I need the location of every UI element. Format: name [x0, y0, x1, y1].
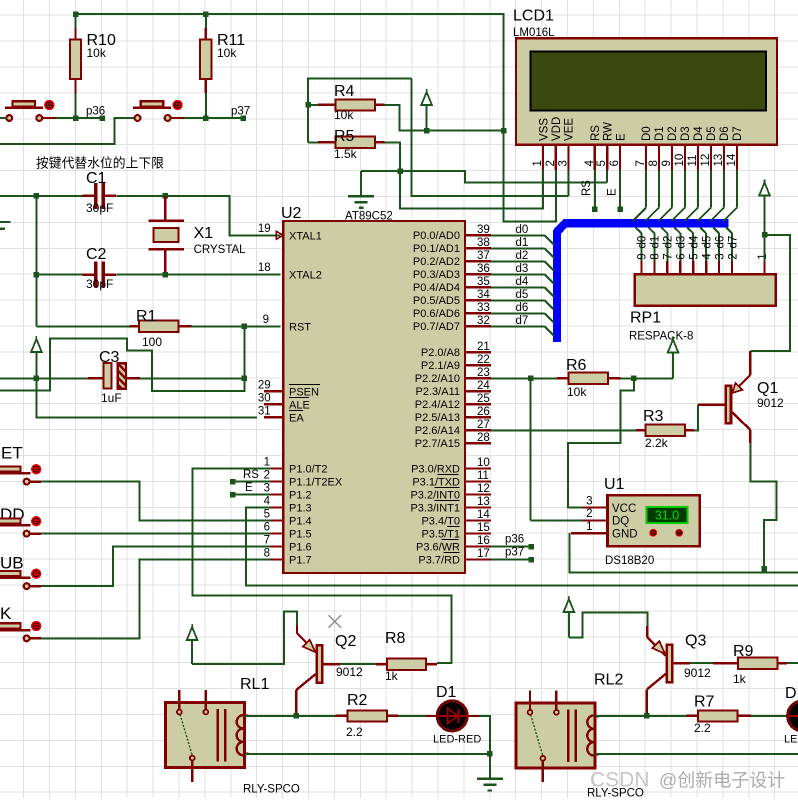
- svg-text:30pF: 30pF: [86, 201, 113, 215]
- svg-text:P1.1/T2EX: P1.1/T2EX: [289, 476, 343, 488]
- svg-text:30pF: 30pF: [86, 277, 113, 291]
- svg-text:C3: C3: [99, 349, 120, 366]
- svg-text:D7: D7: [732, 126, 744, 141]
- svg-text:LCD1: LCD1: [513, 8, 554, 25]
- svg-text:RP1: RP1: [630, 310, 661, 327]
- svg-text:d3: d3: [676, 236, 688, 249]
- svg-text:R5: R5: [334, 128, 355, 145]
- svg-text:R4: R4: [334, 83, 355, 100]
- push button: [30, 637, 41, 639]
- wire X1 row to XTAL1: [165, 196, 280, 236]
- wire RL1 coil bottom: [245, 753, 490, 755]
- svg-text:38: 38: [477, 237, 490, 249]
- LCD pins: [542, 145, 544, 171]
- svg-text:Q2: Q2: [335, 633, 356, 650]
- svg-text:D2: D2: [667, 126, 679, 141]
- net label RS at LCD: [592, 206, 598, 212]
- wire C1 to X1 top: [117, 195, 165, 197]
- svg-text:34: 34: [477, 289, 490, 301]
- node R4 left: [305, 102, 311, 108]
- wire RS pin to label: [594, 170, 596, 209]
- resistor R2: [336, 715, 348, 717]
- svg-text:3: 3: [586, 495, 592, 507]
- svg-text:RW: RW: [603, 122, 615, 141]
- node RP1 power: [762, 232, 768, 238]
- svg-text:VSS: VSS: [538, 118, 550, 141]
- svg-text:4: 4: [264, 496, 271, 508]
- power +5V arrow A2: [35, 336, 37, 339]
- relay RL2 RLY-SPCO: [516, 703, 595, 768]
- svg-text:P3.0/RXD: P3.0/RXD: [411, 463, 460, 475]
- wire R1 to RST: [192, 325, 281, 327]
- wire Q1 collector down: [750, 443, 776, 573]
- transistor Q3 9012: [667, 645, 672, 683]
- wire Q3 base to R9: [690, 662, 713, 664]
- node D1-gnd: [487, 751, 493, 757]
- svg-text:P1.3: P1.3: [289, 502, 312, 514]
- push button: [30, 585, 41, 587]
- svg-text:R9: R9: [733, 643, 754, 660]
- svg-text:36: 36: [477, 263, 490, 275]
- wire P2.6 to R3: [491, 429, 636, 431]
- svg-text:P1.4: P1.4: [289, 515, 312, 527]
- svg-text:VDD: VDD: [551, 117, 563, 141]
- net label E at LCD: [617, 206, 623, 212]
- wire arrow to Q3 emitter: [569, 613, 648, 638]
- svg-text:11: 11: [477, 470, 489, 482]
- wire P1.5 from DD: [41, 533, 270, 535]
- svg-text:24: 24: [477, 380, 490, 392]
- svg-text:32: 32: [477, 315, 490, 327]
- svg-text:9: 9: [263, 314, 269, 326]
- svg-text:P0.1/AD1: P0.1/AD1: [413, 243, 460, 255]
- svg-text:p37: p37: [505, 547, 524, 559]
- svg-text:DQ: DQ: [612, 516, 629, 528]
- wire left bus down: [35, 196, 37, 275]
- wire R2 to D1: [398, 715, 426, 717]
- node rail-R11: [203, 11, 209, 17]
- svg-text:P3.5/T1: P3.5/T1: [421, 528, 460, 540]
- svg-text:10k: 10k: [334, 108, 354, 122]
- svg-text:XTAL2: XTAL2: [289, 270, 322, 282]
- net label p36: [99, 115, 105, 121]
- wire +5V top rail: [76, 14, 504, 131]
- svg-text:RST: RST: [289, 321, 311, 333]
- node C2-left: [34, 272, 40, 278]
- U2 P1 pin stubs: [270, 468, 283, 470]
- svg-text:P2.7/A15: P2.7/A15: [415, 438, 460, 450]
- resistor R4: [308, 104, 318, 106]
- svg-text:RLY-SPCO: RLY-SPCO: [243, 784, 300, 796]
- svg-text:1: 1: [532, 160, 544, 166]
- svg-text:8: 8: [264, 548, 270, 560]
- node Q2 collector: [293, 713, 299, 719]
- wire C1 row left: [0, 195, 36, 197]
- wire RW pin: [606, 170, 608, 182]
- svg-text:XTAL1: XTAL1: [289, 230, 322, 242]
- wire reset loop staircase: [0, 339, 244, 391]
- wire DQ drop: [530, 378, 532, 520]
- svg-text:3: 3: [557, 160, 569, 166]
- resistor R5: [308, 141, 318, 143]
- svg-text:RS: RS: [581, 180, 593, 196]
- svg-text:R1: R1: [136, 308, 157, 325]
- svg-text:CSDN: CSDN: [590, 769, 650, 792]
- svg-text:7: 7: [264, 535, 270, 547]
- svg-text:1: 1: [264, 457, 270, 469]
- svg-text:27: 27: [477, 419, 490, 431]
- svg-text:P2.1/A9: P2.1/A9: [421, 360, 460, 372]
- svg-text:4: 4: [584, 160, 596, 167]
- push button: [30, 480, 41, 482]
- svg-text:D5: D5: [706, 126, 718, 141]
- power +5V arrow A3: [191, 624, 193, 627]
- svg-text:P2.0/A8: P2.0/A8: [421, 347, 460, 359]
- svg-text:1: 1: [586, 521, 592, 533]
- svg-text:22: 22: [477, 354, 490, 366]
- node button2-R11: [203, 115, 209, 121]
- wire R6 right to arrow: [621, 377, 673, 379]
- svg-text:2: 2: [586, 508, 592, 520]
- svg-text:R2: R2: [347, 692, 368, 709]
- wire D1 to ground: [467, 715, 479, 717]
- power +5V arrow A5: [672, 337, 674, 340]
- svg-text:9012: 9012: [757, 396, 784, 410]
- svg-text:31: 31: [258, 405, 271, 417]
- bus data d0-d7: [557, 223, 728, 342]
- svg-text:2: 2: [727, 253, 739, 259]
- svg-text:VEE: VEE: [564, 118, 576, 141]
- svg-text:P1.0/T2: P1.0/T2: [289, 463, 328, 475]
- svg-text:p37: p37: [231, 106, 250, 118]
- svg-text:d7: d7: [516, 315, 529, 327]
- svg-text:7: 7: [635, 160, 647, 166]
- svg-text:1uF: 1uF: [101, 391, 122, 405]
- svg-text:28: 28: [477, 432, 490, 444]
- resistor R3: [636, 429, 646, 431]
- wire arrow to Q2 emitter: [192, 611, 297, 664]
- wire R3 to Q1 base: [694, 405, 698, 431]
- svg-text:9: 9: [661, 160, 673, 166]
- svg-text:D: D: [785, 685, 797, 702]
- ground G0 partial: [0, 221, 11, 223]
- svg-text:R6: R6: [566, 357, 587, 374]
- svg-text:12: 12: [477, 483, 490, 495]
- svg-text:6: 6: [609, 160, 621, 166]
- wire P1.6 from UB: [41, 547, 270, 587]
- svg-text:10: 10: [674, 154, 686, 167]
- svg-text:D3: D3: [680, 126, 692, 141]
- svg-text:8: 8: [650, 253, 662, 259]
- svg-text:13: 13: [477, 496, 490, 508]
- svg-text:8: 8: [648, 160, 660, 166]
- svg-text:D6: D6: [719, 126, 731, 141]
- svg-text:35: 35: [477, 276, 490, 288]
- svg-text:P3.4/T0: P3.4/T0: [421, 515, 460, 527]
- svg-text:2.2: 2.2: [694, 721, 711, 735]
- svg-text:PSEN: PSEN: [289, 386, 319, 398]
- svg-text:LED-RED: LED-RED: [433, 734, 481, 746]
- resistor R7: [687, 715, 698, 717]
- svg-text:3: 3: [714, 253, 726, 259]
- svg-text:d1: d1: [650, 236, 662, 249]
- svg-text:按键代替水位的上下限: 按键代替水位的上下限: [36, 156, 164, 171]
- power +5V arrow A1: [426, 89, 428, 92]
- LCD screen: [531, 51, 766, 110]
- diode D2 LED-RED: [788, 701, 798, 731]
- svg-text:RS: RS: [590, 125, 602, 141]
- resistor R6: [557, 377, 569, 379]
- svg-text:P0.4/AD4: P0.4/AD4: [413, 282, 460, 294]
- svg-text:21: 21: [477, 341, 490, 353]
- svg-text:d6: d6: [714, 236, 726, 249]
- svg-text:6: 6: [676, 253, 688, 259]
- svg-text:P0.7/AD7: P0.7/AD7: [413, 321, 460, 333]
- node C3-right: [242, 376, 248, 382]
- svg-text:33: 33: [477, 302, 490, 314]
- svg-text:100: 100: [142, 335, 162, 349]
- capacitor C2: [36, 274, 88, 276]
- svg-text:@创新电子设计: @创新电子设计: [659, 771, 785, 791]
- resistor R1: [36, 325, 129, 327]
- svg-text:7: 7: [663, 253, 675, 259]
- svg-text:13: 13: [713, 154, 725, 167]
- resistor R10: [75, 14, 77, 28]
- svg-text:6: 6: [264, 522, 270, 534]
- wire P3.7 p37: [491, 559, 531, 561]
- resistor R11: [205, 14, 207, 28]
- svg-text:P3.3/INT1: P3.3/INT1: [410, 502, 460, 514]
- svg-text:UB: UB: [0, 554, 24, 573]
- svg-text:K: K: [0, 604, 12, 623]
- svg-text:X1: X1: [194, 225, 214, 242]
- wire P1.7 from K: [41, 560, 270, 639]
- wire RL1 coil top to R2: [245, 715, 336, 717]
- node C1-left: [34, 193, 40, 199]
- ground G1: [360, 171, 362, 196]
- wire VEE pin: [567, 170, 569, 196]
- svg-text:19: 19: [258, 223, 271, 235]
- svg-text:10k: 10k: [87, 46, 107, 60]
- wire E pin to label: [619, 170, 621, 209]
- wire R7 to D2: [751, 715, 788, 717]
- wire button1 left exit: [0, 117, 4, 119]
- svg-text:15: 15: [477, 522, 490, 534]
- svg-text:2.2k: 2.2k: [645, 436, 669, 450]
- svg-text:d3: d3: [516, 263, 529, 275]
- svg-text:E: E: [607, 188, 619, 196]
- svg-text:31.0: 31.0: [655, 509, 679, 523]
- wire R4R5 left loop: [308, 79, 412, 143]
- wire P1.3 long rail: [246, 508, 798, 586]
- U2 left pin stubs: [264, 390, 284, 392]
- svg-text:P1.2: P1.2: [289, 489, 312, 501]
- svg-text:30: 30: [258, 392, 271, 404]
- svg-text:1k: 1k: [733, 672, 747, 686]
- svg-text:14: 14: [726, 153, 738, 166]
- net label p36 chip: [528, 544, 534, 550]
- node R6-right: [631, 376, 637, 382]
- svg-text:E: E: [615, 133, 627, 141]
- wire RP1 pin1 power: [764, 235, 766, 261]
- wire R6 node to U1 VCC: [568, 378, 634, 507]
- svg-text:2: 2: [545, 160, 557, 166]
- net label p37: [240, 115, 246, 121]
- error marker X: [328, 615, 341, 628]
- svg-text:3: 3: [264, 483, 270, 495]
- wire C2 to XTAL2: [117, 274, 165, 276]
- net label E tap: [230, 492, 236, 498]
- svg-text:d5: d5: [701, 236, 713, 249]
- transistor Q1 9012: [726, 386, 731, 424]
- svg-text:ET: ET: [1, 444, 23, 463]
- svg-text:d0: d0: [516, 224, 529, 236]
- svg-text:RESPACK-8: RESPACK-8: [629, 331, 693, 343]
- svg-text:D1: D1: [654, 126, 666, 141]
- svg-text:P2.6/A14: P2.6/A14: [415, 425, 460, 437]
- wire VDD drop: [504, 131, 557, 222]
- node Q3 collector: [644, 713, 650, 719]
- svg-text:23: 23: [477, 367, 490, 379]
- U2 P3 pin stubs: [465, 468, 491, 470]
- svg-text:P2.3/A11: P2.3/A11: [416, 386, 460, 398]
- wire gnd down to VSS row: [400, 170, 543, 208]
- svg-text:d5: d5: [516, 289, 529, 301]
- ground G2: [489, 754, 491, 779]
- svg-text:P2.4/A12: P2.4/A12: [415, 399, 460, 411]
- svg-text:D0: D0: [641, 126, 653, 141]
- push button: [0, 117, 5, 119]
- svg-text:d2: d2: [516, 250, 529, 262]
- svg-text:10k: 10k: [217, 46, 237, 60]
- wire C2 row to chip: [165, 274, 280, 276]
- resistor R8: [376, 663, 387, 665]
- svg-text:5: 5: [596, 160, 608, 166]
- svg-text:U2: U2: [281, 205, 302, 222]
- svg-text:d7: d7: [727, 236, 739, 249]
- svg-text:P0.6/AD6: P0.6/AD6: [413, 308, 460, 320]
- capacitor C3 electrolytic: [36, 377, 88, 379]
- svg-text:U1: U1: [604, 476, 625, 493]
- power +5V arrow A6: [764, 180, 766, 183]
- svg-text:d0: d0: [637, 236, 649, 249]
- svg-text:26: 26: [477, 406, 490, 418]
- node VDD-arrow: [424, 128, 430, 134]
- wire R10 to p36 row: [75, 93, 77, 118]
- svg-text:P3.1/TXD: P3.1/TXD: [412, 476, 460, 488]
- wire left bus down2: [35, 275, 37, 327]
- svg-text:11: 11: [687, 155, 699, 167]
- node RST: [242, 324, 248, 330]
- svg-text:39: 39: [477, 224, 490, 236]
- svg-text:12: 12: [700, 154, 712, 167]
- U2 P2 pin stubs: [465, 351, 491, 353]
- svg-text:10k: 10k: [567, 385, 587, 399]
- svg-text:d4: d4: [689, 235, 701, 248]
- diode D1 LED-RED: [437, 701, 467, 731]
- svg-text:P0.3/AD3: P0.3/AD3: [413, 269, 460, 281]
- svg-text:P2.2/A10: P2.2/A10: [415, 373, 460, 385]
- node gnd-1: [397, 168, 403, 174]
- wires LCD D0-D7 to bus: [645, 170, 647, 208]
- capacitor C2: [94, 262, 98, 288]
- transistor Q2 9012: [317, 645, 322, 683]
- svg-text:P0.2/AD2: P0.2/AD2: [413, 256, 460, 268]
- svg-text:16: 16: [477, 535, 490, 547]
- svg-text:p36: p36: [86, 106, 105, 118]
- svg-text:CRYSTAL: CRYSTAL: [194, 244, 247, 256]
- svg-text:EA: EA: [289, 412, 304, 424]
- svg-text:p36: p36: [505, 534, 524, 546]
- svg-text:4: 4: [701, 253, 713, 260]
- wire R11 to p37 row: [205, 93, 207, 118]
- node button1-R10: [73, 115, 79, 121]
- svg-text:9012: 9012: [684, 666, 711, 680]
- node VDD-rail: [501, 128, 507, 134]
- svg-text:2: 2: [264, 470, 270, 482]
- svg-text:2.2: 2.2: [346, 725, 363, 739]
- push button: [128, 117, 133, 119]
- net label RS tap: [230, 479, 236, 485]
- wire P2.2 to R6/DQ: [491, 377, 557, 379]
- svg-text:P1.5: P1.5: [289, 528, 312, 540]
- node X1 top: [163, 193, 169, 199]
- wire P1.0 to R8: [193, 469, 452, 663]
- svg-text:d6: d6: [516, 302, 529, 314]
- svg-text:17: 17: [477, 548, 490, 560]
- svg-text:d2: d2: [663, 236, 675, 249]
- svg-text:Q1: Q1: [757, 380, 778, 397]
- wire RST down to C3 node: [243, 326, 245, 378]
- svg-text:P1.7: P1.7: [289, 554, 312, 566]
- wire R4 right to VDD rail: [384, 105, 503, 131]
- wire gnd to RW: [400, 171, 607, 183]
- push button: [30, 532, 41, 534]
- svg-text:D1: D1: [436, 684, 457, 701]
- wire P1.4 from ET: [41, 482, 270, 521]
- svg-text:9012: 9012: [336, 665, 363, 679]
- svg-text:C1: C1: [86, 170, 107, 187]
- wire U1 GND rail: [570, 533, 798, 572]
- resistor R9: [713, 662, 738, 664]
- node Q1-gnd rail: [761, 566, 767, 572]
- svg-text:ALE: ALE: [289, 399, 310, 411]
- wire button2 left lead: [0, 118, 131, 144]
- svg-text:GND: GND: [612, 528, 638, 540]
- wire button1 to p36: [56, 117, 102, 119]
- svg-text:5: 5: [689, 253, 701, 259]
- svg-text:25: 25: [477, 393, 490, 405]
- svg-text:10: 10: [477, 457, 490, 469]
- wire DQ row: [531, 519, 583, 521]
- svg-text:P2.5/A13: P2.5/A13: [415, 412, 460, 424]
- svg-text:1k: 1k: [385, 669, 399, 683]
- wire VEE riser: [412, 79, 569, 197]
- svg-text:C2: C2: [86, 246, 107, 263]
- wire button2 to p37: [184, 117, 243, 119]
- power +5V arrow A4: [568, 596, 570, 599]
- svg-text:14: 14: [477, 509, 490, 521]
- svg-text:1: 1: [757, 253, 769, 259]
- svg-text:Q3: Q3: [685, 633, 706, 650]
- svg-text:RS: RS: [243, 469, 259, 481]
- svg-text:P3.7/RD: P3.7/RD: [418, 554, 460, 566]
- node rail-R10: [73, 11, 79, 17]
- wire arrow stem to EA: [36, 378, 257, 417]
- svg-text:1.5k: 1.5k: [334, 147, 358, 161]
- wire R9 right exit: [787, 662, 798, 664]
- svg-text:P0.0/AD0: P0.0/AD0: [413, 230, 460, 242]
